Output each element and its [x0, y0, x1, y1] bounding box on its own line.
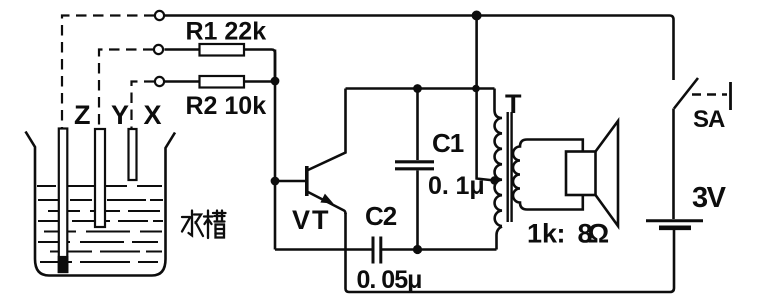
svg-text:VT: VT [292, 205, 331, 235]
svg-text:0.: 0. [428, 172, 449, 200]
svg-text::: : [557, 219, 566, 249]
svg-text:SA: SA [693, 106, 725, 133]
svg-text:C1: C1 [432, 128, 464, 158]
svg-text:X: X [144, 100, 162, 130]
svg-text:Z: Z [74, 100, 91, 130]
svg-text:1k: 1k [527, 219, 558, 249]
svg-text:R1 22k: R1 22k [186, 18, 267, 46]
svg-text:C2: C2 [365, 201, 397, 231]
svg-text:T: T [505, 89, 522, 119]
svg-text:R2 10k: R2 10k [186, 92, 267, 120]
svg-text:0. 05μ: 0. 05μ [357, 266, 422, 294]
svg-text:8Ω: 8Ω [578, 219, 609, 249]
svg-text:1μ: 1μ [456, 172, 485, 200]
svg-text:3V: 3V [692, 182, 727, 214]
svg-text:Y: Y [111, 100, 129, 130]
